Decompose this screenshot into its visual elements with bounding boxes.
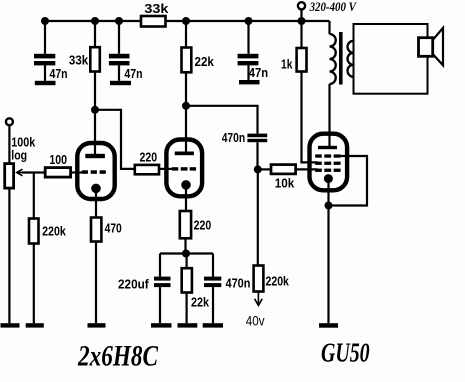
grid dashes V1 — [82, 170, 106, 174]
wire 33k plate resistor top lead — [94, 21, 96, 47]
wire input to pot — [8, 125, 10, 163]
triode V2 (1/2 6H8C) envelope — [166, 140, 202, 197]
wire 22k to V2 anode node — [185, 72, 187, 106]
potentiometer wiper arrow — [17, 169, 23, 176]
ground under 22k — [178, 323, 198, 327]
resistor 10k (GU50 grid stopper) — [271, 165, 296, 174]
ground under C3 — [239, 80, 260, 84]
wire 1k to GU50 screen grid — [302, 72, 318, 163]
wire 33k to V1 anode node — [94, 72, 96, 110]
node RC junction — [182, 250, 190, 258]
ground under 220uf — [151, 323, 172, 327]
node rail junction C1 — [41, 17, 49, 25]
svg-text:220: 220 — [140, 149, 158, 164]
svg-text:220: 220 — [194, 217, 212, 232]
triode V1 (1/2 6H8C) envelope — [77, 143, 114, 199]
wire B+ node to 1k — [300, 21, 302, 48]
ground under 470 — [88, 323, 106, 327]
resistor 220k (grid leak) — [29, 219, 39, 244]
speaker horn — [433, 28, 443, 65]
wire rail to transformer primary — [328, 21, 330, 34]
svg-text:22k: 22k — [195, 54, 215, 69]
resistor 33k (decoupling, on rail) — [141, 16, 166, 27]
wire V2 cathode down — [185, 189, 187, 211]
svg-text:220k: 220k — [42, 224, 66, 239]
svg-text:470n: 470n — [226, 276, 251, 291]
svg-text:100: 100 — [49, 152, 67, 167]
wire coupling cap to grid node — [256, 142, 258, 169]
ground GU50 cathode — [319, 323, 338, 328]
wire V1 cathode down — [95, 192, 97, 218]
wire RC rail — [160, 252, 213, 254]
svg-text:33k: 33k — [144, 1, 169, 16]
wire GU50 suppressor to cathode loop — [329, 156, 368, 206]
svg-text:47n: 47n — [249, 65, 268, 80]
wire primary to GU50 anode — [328, 84, 330, 148]
wire wiper to 100 resistor — [22, 171, 45, 173]
node V1 anode junction — [91, 106, 99, 114]
wire grid node to 10k — [258, 168, 271, 170]
anode plate V2 — [175, 152, 194, 156]
wire grid node to bias resistor — [257, 169, 259, 265]
wire 470n bypass top lead — [212, 254, 214, 277]
cathode dot V2 — [181, 180, 191, 190]
wire B+ terminal to rail — [300, 9, 302, 21]
node V2 anode junction — [182, 102, 190, 110]
svg-text:1k: 1k — [281, 56, 293, 71]
wire 220 to V2 grid — [159, 168, 172, 170]
svg-text:47n: 47n — [124, 66, 142, 81]
node rail junction 33k — [91, 17, 99, 25]
wire V2 anode lead — [185, 106, 187, 152]
wire pot bottom to ground — [8, 188, 10, 323]
resistor 470 (V1 cathode) — [91, 218, 101, 242]
svg-text:220uf: 220uf — [118, 276, 149, 291]
svg-text:2x6H8C: 2x6H8C — [77, 340, 159, 373]
arrow to -40v bias — [255, 292, 263, 306]
capacitor 470n coupling — [247, 134, 267, 143]
ground under 470n — [203, 323, 223, 327]
wire cap C3 top lead — [247, 21, 249, 54]
wire 220uf top lead — [159, 254, 161, 277]
transformer T1 primary winding — [330, 34, 336, 84]
resistor 1k (screen feed) — [297, 48, 307, 72]
anode plate GU50 — [318, 146, 337, 149]
node rail junction C2 — [115, 17, 123, 25]
pentode GU50 envelope — [310, 134, 348, 191]
wire cap C1 bottom lead — [44, 65, 46, 80]
wire V1 anode to 33k — [94, 110, 96, 154]
wire 22k top lead — [186, 254, 188, 269]
ground under 220k — [26, 323, 44, 327]
wire speaker loop (secondary box) — [354, 24, 428, 94]
node rail junction B+ — [298, 17, 306, 25]
svg-text:470n: 470n — [222, 130, 245, 145]
cathode dot GU50 — [324, 174, 333, 183]
transformer T1 secondary winding — [348, 41, 354, 77]
grid g3 dashes GU50 — [315, 154, 340, 157]
anode plate V1 — [85, 154, 105, 158]
terminal B+ — [298, 2, 305, 9]
wire cap C2 top lead — [118, 21, 120, 54]
svg-text:47n: 47n — [50, 66, 68, 81]
wire GU50 cathode down — [327, 183, 329, 323]
wire 22k bottom lead — [186, 293, 188, 324]
capacitor 470n bypass — [204, 277, 221, 288]
svg-text:GU50: GU50 — [321, 338, 370, 368]
svg-text:470: 470 — [105, 221, 122, 236]
svg-text:220k: 220k — [266, 273, 290, 288]
wire cap C3 bottom lead — [247, 65, 249, 80]
grid g2 dashes GU50 — [315, 162, 340, 165]
capacitor C1 47n — [34, 54, 55, 66]
resistor 220 (V2 cathode) — [180, 211, 191, 238]
wire top B+ rail — [45, 20, 330, 22]
grid g1 dashes GU50 — [315, 169, 340, 172]
wire V2 anode node to coupling cap — [186, 106, 258, 134]
wire 22k plate resistor top lead — [185, 21, 187, 48]
resistor 33k (V1 plate load) — [90, 47, 100, 71]
potentiometer 100k log body — [5, 164, 14, 189]
capacitor 220uf — [154, 277, 171, 288]
ground under C1 — [35, 81, 56, 85]
wire cap C1 top lead — [44, 21, 46, 54]
grid dashes V2 — [172, 167, 196, 170]
wire 470 to ground — [95, 242, 97, 324]
wire 220k bottom to ground — [33, 244, 35, 324]
node rail junction 22k — [182, 17, 190, 25]
wire 220uf bottom lead — [159, 287, 161, 323]
wire 100 to V1 grid — [71, 171, 82, 173]
ground under C2 — [110, 81, 131, 85]
node GU50 grid junction — [254, 165, 262, 173]
ground under pot — [1, 323, 20, 327]
resistor 220k (bias) — [254, 266, 264, 292]
resistor 220 (V2 grid stopper) — [135, 165, 159, 174]
cathode dot V1 — [91, 184, 101, 194]
svg-text:320-400 V: 320-400 V — [309, 0, 357, 14]
resistor 22k (cathode network) — [182, 268, 192, 292]
wire grid leak tap — [33, 173, 35, 219]
svg-text:40v: 40v — [246, 312, 265, 328]
wire 220 to RC node — [184, 238, 186, 253]
capacitor C3 47n — [238, 54, 259, 66]
wire 10k to GU50 control grid — [296, 168, 318, 170]
svg-text:22k: 22k — [191, 294, 210, 309]
node rail junction C3 — [245, 17, 253, 25]
resistor 100 (V1 grid stopper) — [45, 168, 70, 178]
node cathode junction — [325, 202, 333, 210]
wire 470n bypass bottom lead — [212, 287, 214, 323]
svg-text:33k: 33k — [69, 52, 89, 67]
resistor 22k (V2 plate load) — [182, 48, 192, 73]
speaker driver square — [419, 38, 433, 57]
capacitor C2 47n — [109, 54, 130, 66]
terminal input — [6, 118, 13, 125]
wire cap C2 bottom lead — [118, 65, 120, 80]
wire V1 anode to V2 grid resistor — [95, 110, 135, 169]
svg-text:10k: 10k — [275, 176, 295, 191]
transformer T1 core — [339, 32, 343, 85]
svg-text:log: log — [11, 148, 27, 163]
